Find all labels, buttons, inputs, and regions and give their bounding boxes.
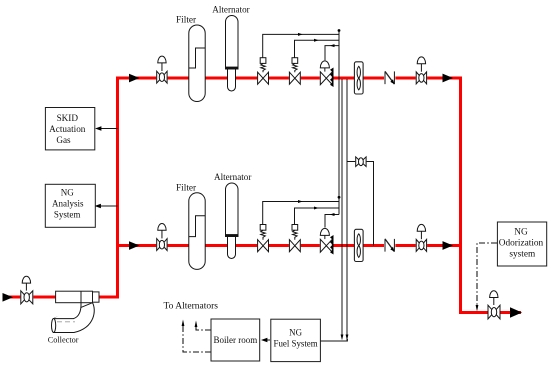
svg-text:To Alternators: To Alternators — [164, 302, 219, 312]
svg-text:Odorization: Odorization — [499, 239, 544, 249]
wire signal M3 — [325, 215, 339, 228]
wire signal T1 — [263, 34, 339, 57]
valve V6 control valve mid entry — [156, 224, 167, 251]
wire arrow line to NG Analysis box — [96, 205, 118, 207]
wire fuel gas twin line 1 — [341, 79, 343, 335]
arrow fuel line 2 down — [346, 335, 349, 341]
arrow flow mid-left — [129, 241, 140, 250]
box NG Analysis System — [45, 184, 95, 227]
arrow signal T1 — [298, 33, 303, 36]
wire dash-dot to odorization — [477, 243, 497, 306]
arrow signal T3 — [330, 44, 335, 47]
valve crossover spool — [355, 157, 366, 167]
svg-text:NG: NG — [61, 188, 74, 198]
wire arrow line to SKID box — [97, 128, 118, 130]
wire middle red pipe line B — [118, 244, 461, 247]
node junction dot middle — [338, 196, 341, 199]
valve V11 control valve inlet — [20, 276, 33, 304]
valve V12 control valve odorized exit — [488, 291, 501, 319]
valve V2 square actuator — [257, 58, 269, 85]
wire signal M2 — [295, 208, 340, 225]
arrow odorization down — [476, 305, 479, 312]
alternator A1 — [226, 15, 239, 91]
alternator A2 — [226, 183, 239, 259]
box SKID Actuation Gas — [45, 108, 94, 150]
svg-text:NG: NG — [289, 328, 302, 338]
filter F2 — [189, 193, 205, 270]
check valve N top — [384, 70, 395, 85]
arrow signal M1 — [298, 200, 303, 203]
svg-text:Boiler room: Boiler room — [214, 335, 258, 345]
svg-text:Collector: Collector — [48, 336, 79, 345]
arrow flow top-left — [129, 74, 140, 83]
svg-text:Actuation: Actuation — [49, 124, 86, 134]
arrow signal M3 — [330, 213, 335, 216]
svg-text:Alternator: Alternator — [214, 172, 251, 182]
wire fuel gas header to NG Fuel System — [320, 339, 347, 341]
arrow flow top-right — [443, 74, 454, 83]
svg-text:SKID: SKID — [57, 113, 79, 123]
wire signal T3 — [325, 46, 339, 61]
filter F1 — [189, 25, 205, 102]
svg-text:Analysis: Analysis — [52, 199, 84, 209]
wire dash-dot boiler room to alternators 1 — [196, 327, 211, 330]
valve V1 control valve top entry — [156, 56, 167, 83]
valve V5 control valve top exit — [416, 57, 427, 84]
box Boiler room — [211, 319, 260, 361]
svg-text:NG: NG — [514, 228, 528, 238]
valve V8 square actuator — [289, 225, 301, 252]
wire signal bus vertical — [338, 31, 340, 215]
svg-text:Gas: Gas — [56, 135, 71, 145]
collector — [52, 291, 100, 332]
box NG Fuel System — [271, 319, 321, 361]
wire arrow line NG Fuel System to Boiler room — [263, 339, 271, 341]
svg-text:system: system — [509, 250, 536, 260]
wire crossover with valve to line B — [347, 162, 374, 246]
flow meter FM2 — [354, 229, 363, 261]
check valve N middle — [384, 238, 395, 253]
wire fuel gas twin line 2 — [346, 79, 348, 341]
valve V9 dome actuator with relief — [320, 228, 334, 254]
svg-text:Filter: Filter — [176, 184, 197, 194]
wire dash-dot boiler room to alternators 2 — [183, 326, 211, 352]
arrow flow mid-right — [443, 241, 454, 250]
wire main red pipe loop — [5, 78, 521, 313]
node junction dot top — [338, 29, 341, 32]
svg-text:Filter: Filter — [176, 16, 197, 26]
valve V7 square actuator — [257, 225, 269, 252]
flow meter FM1 — [354, 62, 363, 94]
wire signal M1 — [263, 202, 339, 225]
valve V4 dome actuator with relief — [320, 61, 334, 87]
valve V3 square actuator — [289, 58, 301, 85]
arrow signal T2 — [314, 39, 319, 42]
svg-text:Fuel System: Fuel System — [274, 339, 318, 349]
arrow outlet bottom-right — [510, 307, 522, 317]
svg-text:Alternator: Alternator — [212, 5, 249, 15]
valve V10 control valve mid exit — [416, 224, 427, 251]
box NG Odorization system — [497, 222, 546, 266]
arrow signal M2 — [314, 207, 319, 210]
svg-text:System: System — [54, 210, 81, 220]
wire signal T2 — [295, 40, 340, 58]
arrow inlet bottom-left — [3, 293, 14, 302]
arrow fuel line 1 down — [341, 335, 344, 341]
